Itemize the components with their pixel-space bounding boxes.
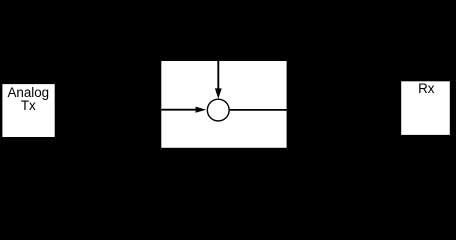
svg-text:Rx: Rx (418, 81, 435, 96)
svg-text:Tx: Tx (21, 98, 36, 113)
